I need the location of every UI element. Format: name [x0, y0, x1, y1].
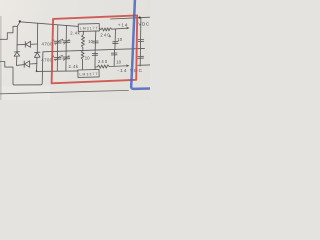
- capacitor C9 output filter upper right: [138, 40, 144, 42]
- svg-text:2.4k: 2.4k: [70, 31, 80, 36]
- paper background: [0, 0, 150, 100]
- scan edge shadow left: [0, 16, 2, 100]
- svg-text:240: 240: [98, 59, 108, 64]
- wire top rail to regulator input: [20, 22, 79, 27]
- resistor R3 2.4k vertical lower: [81, 50, 84, 69]
- svg-text:2.4k: 2.4k: [69, 64, 79, 69]
- diode D3 bottom of bridge: [24, 61, 37, 68]
- plus polarity mark C6: [109, 35, 111, 37]
- wire right output cap column: [139, 18, 142, 66]
- op-amp U1 regulator LM317 box: [78, 24, 99, 32]
- svg-text:LM317T: LM317T: [80, 26, 98, 31]
- wire bridge bottom-left corner: [17, 64, 25, 67]
- diode D2 left of bridge: [14, 45, 20, 66]
- wire bottom rail to LM337 input: [37, 70, 79, 73]
- node dot input terminal: [19, 20, 21, 22]
- svg-text:10: 10: [117, 37, 122, 42]
- op-amp U2 regulator LM337 box: [78, 69, 99, 77]
- wire AC1 column: [16, 26, 18, 45]
- paper light bottom-left patch: [0, 86, 50, 100]
- svg-text:10: 10: [116, 60, 121, 65]
- svg-text:4700: 4700: [41, 58, 53, 63]
- wire stub corner AC1 to top rail: [17, 22, 20, 26]
- wire U2 output and resistor R4 240: [95, 65, 128, 68]
- junction dot minus rail: [36, 70, 38, 72]
- wire AC1 staircase from left edge: [0, 26, 17, 39]
- capacitor C8 10u output lower: [111, 50, 117, 66]
- wire bridge minus output down: [36, 64, 38, 72]
- capacitor C1 4700u upper col1: [54, 40, 61, 45]
- svg-text:-14 VDC: -14 VDC: [118, 68, 143, 73]
- svg-text:+14: +14: [118, 22, 128, 27]
- capacitor C4 4700u lower col2: [63, 56, 70, 61]
- svg-text:240: 240: [100, 32, 110, 37]
- wire center tap from left edge: [0, 52, 43, 85]
- arrowhead -14 output: [126, 64, 129, 67]
- wire page bottom rule: [0, 90, 129, 93]
- red annotation box: [52, 15, 138, 83]
- capacitor C5 10u adj bypass: [93, 31, 98, 50]
- resistor R1 2.4k vertical: [81, 31, 84, 50]
- diode D4 right of bridge: [34, 52, 40, 63]
- capacitor C7 10u adj bypass lower: [92, 50, 97, 70]
- node dot +14 rail junction: [139, 17, 141, 19]
- svg-text:4700: 4700: [42, 41, 54, 46]
- wire -14 rail exit right: [138, 64, 150, 66]
- capacitor C2 4700u upper col2: [63, 39, 70, 44]
- arrowhead +14 output: [126, 27, 129, 30]
- wire U1 output and resistor R2 240: [99, 28, 128, 31]
- capacitor C3 4700u lower col1: [54, 56, 61, 61]
- svg-text:10: 10: [88, 39, 93, 44]
- wire filter column 1: [56, 25, 59, 71]
- blue annotation line: [131, 0, 150, 89]
- wire B regulated +14 rail top right: [111, 17, 151, 19]
- svg-text:VDC: VDC: [138, 22, 149, 27]
- svg-text:10: 10: [85, 56, 90, 61]
- svg-text:LM337T: LM337T: [79, 72, 97, 77]
- diode D1 top of bridge: [17, 41, 37, 47]
- capacitor C10 output filter lower right: [138, 56, 144, 58]
- wire bridge right column from top rail: [36, 23, 38, 52]
- wire filter column 2: [65, 25, 68, 70]
- plus polarity marks filter caps: [52, 39, 63, 57]
- wire ground mid rail: [43, 48, 145, 51]
- capacitor C6 10u output: [113, 29, 118, 50]
